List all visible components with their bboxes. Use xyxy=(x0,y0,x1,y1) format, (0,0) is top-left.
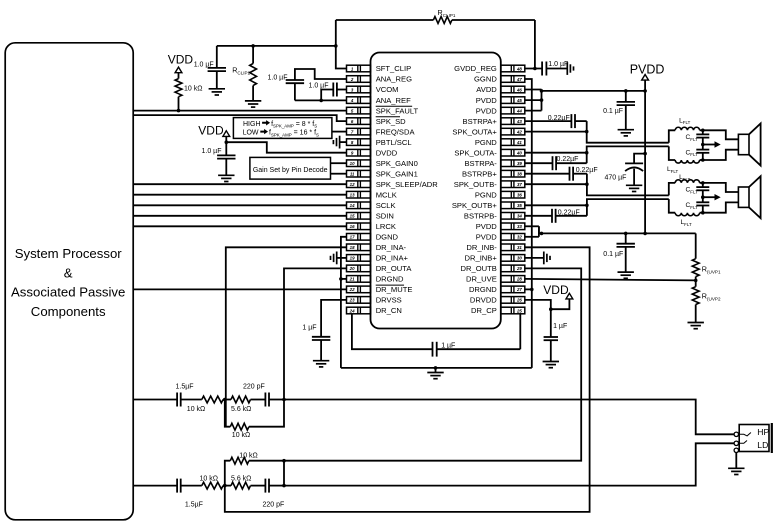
svg-text:10 kΩ: 10 kΩ xyxy=(232,432,250,439)
svg-text:11: 11 xyxy=(350,172,355,177)
wire DR_INB- to feedback node A2 xyxy=(225,247,590,512)
pin PGND (right 13) xyxy=(475,190,525,199)
inductor L_FLT (channel A top) xyxy=(669,130,675,142)
pin BSTRPB+ (right 11) xyxy=(462,169,525,178)
node A junction (channel A) xyxy=(223,398,227,402)
svg-text:SPK_OUTB+: SPK_OUTB+ xyxy=(452,201,498,210)
pin DVDD (left 9) xyxy=(347,148,398,157)
svg-text:DR_INA+: DR_INA+ xyxy=(376,254,409,263)
node PVDD pin4 junction xyxy=(540,98,544,102)
svg-text:LOW: LOW xyxy=(243,130,259,137)
pin GGND (right 2) xyxy=(474,75,525,84)
svg-text:10: 10 xyxy=(350,161,355,166)
node DVDD supply junction xyxy=(225,140,229,144)
resistor 10k feedback (channel A) xyxy=(225,400,231,427)
ground (upper 0.1uF) xyxy=(618,129,634,131)
capacitor 220pF (channel B) xyxy=(264,479,266,493)
svg-text:DR_INB+: DR_INB+ xyxy=(465,254,498,263)
node GVDD_REG junction xyxy=(533,67,537,71)
pin PVDD (right 5) xyxy=(476,106,525,115)
svg-text:DR_MUTE: DR_MUTE xyxy=(376,285,413,294)
pin BSTRPA+ (right 6) xyxy=(463,117,525,126)
svg-text:SPK_FAULT: SPK_FAULT xyxy=(376,106,419,115)
wire PVDD vertical rail xyxy=(644,91,646,234)
svg-text:SFT_CLIP: SFT_CLIP xyxy=(376,64,411,73)
svg-text:1.5µF: 1.5µF xyxy=(176,384,194,391)
wire DRVDD to VDD xyxy=(525,300,551,337)
svg-text:DR_OUTA: DR_OUTA xyxy=(376,264,413,273)
svg-text:19: 19 xyxy=(350,256,355,261)
inductor L_FLT (channel B top) xyxy=(669,183,675,196)
inductor L_FLT (channel B bottom) xyxy=(669,199,675,213)
svg-text:36: 36 xyxy=(517,193,522,198)
wire SFT_CLIP to R_CLIP divider xyxy=(336,20,347,69)
capacitor C_FLT (channel B lower) xyxy=(701,195,705,199)
jack labels xyxy=(757,427,769,450)
jack switch contacts xyxy=(739,433,751,436)
wire SPK_SLEEP/ADR from processor xyxy=(133,183,346,185)
wire input line from processor (channel A) xyxy=(133,399,177,401)
resistor 10k pull-up on SPK_FAULT xyxy=(175,79,182,97)
wire node B1 to headphone jack xyxy=(284,400,734,435)
ground (SFT_CLIP cap) xyxy=(209,88,225,90)
speaker arrow (channel A) xyxy=(703,144,715,146)
svg-text:41: 41 xyxy=(516,140,522,145)
pin DR_OUTB (right 20) xyxy=(461,264,525,273)
svg-text:GVDD_REG: GVDD_REG xyxy=(454,64,497,73)
svg-text:0.22µF: 0.22µF xyxy=(558,209,580,216)
resistor R_CLIP2 xyxy=(251,44,255,48)
wire DR_OUTA down to node B1 xyxy=(284,268,347,399)
node B junction (channel B) xyxy=(282,484,286,488)
wire input line from processor (channel B) xyxy=(133,485,177,487)
ground (DVDD cap) xyxy=(218,174,234,176)
wire DR_INA- to feedback node A1 xyxy=(226,247,347,426)
pin LRCK (left 16) xyxy=(347,222,396,231)
svg-text:220 pF: 220 pF xyxy=(263,502,285,509)
filter B labels xyxy=(679,174,698,227)
svg-text:PVDD: PVDD xyxy=(476,106,498,115)
svg-text:35: 35 xyxy=(517,203,522,208)
wire node B2 to headphone jack xyxy=(284,443,734,485)
wire DVDD to VDD xyxy=(226,142,346,153)
pin DRGND (right 22) xyxy=(469,285,525,294)
pin SPK_GAIN1 (left 11) xyxy=(347,169,418,178)
pin ANA_REG (left 2) xyxy=(347,75,413,84)
pin DRVDD (right 23) xyxy=(470,296,525,305)
svg-text:SCLK: SCLK xyxy=(376,201,396,210)
pin AVDD (right 3) xyxy=(476,85,525,94)
wire ANA_REF rail xyxy=(295,99,347,101)
resistor R_CLIP1 xyxy=(336,19,434,21)
svg-text:HP: HP xyxy=(757,427,769,437)
IC U1 body (audio amplifier) xyxy=(371,53,501,329)
svg-text:22: 22 xyxy=(349,287,355,292)
speaker (channel A) xyxy=(703,130,739,139)
svg-text:DGND: DGND xyxy=(376,233,399,242)
system processor block xyxy=(5,43,133,520)
svg-text:47: 47 xyxy=(516,77,522,82)
jack terminal LD xyxy=(734,441,738,445)
pin DR_INA- (left 18) xyxy=(347,243,407,252)
wire PVDD lower rail xyxy=(539,232,696,234)
svg-text:SPK_GAIN1: SPK_GAIN1 xyxy=(376,169,418,178)
ground (DR_INB+ tie-off) xyxy=(525,257,544,259)
svg-text:470 µF: 470 µF xyxy=(605,175,627,182)
svg-text:VDD: VDD xyxy=(168,53,194,67)
wire GVDD_REG node xyxy=(525,68,542,70)
capacitor 0.22uF (BSTRPA+) xyxy=(525,120,572,122)
svg-text:15: 15 xyxy=(350,214,355,219)
svg-text:21: 21 xyxy=(349,277,355,282)
wire MCLK from processor xyxy=(133,194,346,196)
node DRGND left junction xyxy=(339,277,343,281)
svg-text:220 pF: 220 pF xyxy=(243,384,265,391)
svg-text:SPK_OUTA-: SPK_OUTA- xyxy=(454,148,497,157)
wire SPK_SD from processor xyxy=(133,115,346,121)
svg-text:SPK_SD: SPK_SD xyxy=(376,117,406,126)
svg-text:10 kΩ: 10 kΩ xyxy=(239,452,257,459)
ground (R_UVP divider) xyxy=(688,322,704,324)
svg-text:1 µF: 1 µF xyxy=(302,324,316,331)
pin DR_MUTE (left 22) xyxy=(347,285,413,294)
wire SCLK from processor xyxy=(133,204,346,206)
svg-text:46: 46 xyxy=(516,87,522,92)
svg-text:PGND: PGND xyxy=(475,138,497,147)
svg-text:38: 38 xyxy=(517,172,522,177)
svg-text:Components: Components xyxy=(31,304,106,319)
svg-text:0.22µF: 0.22µF xyxy=(557,156,579,163)
capacitor 1.5uF (channel B) xyxy=(176,479,178,493)
wire SPK_GAIN1 to gain box xyxy=(331,173,347,175)
svg-text:16: 16 xyxy=(350,224,355,229)
node SPK_FAULT pull-up junction xyxy=(177,109,181,113)
wire GGND down to ground rail xyxy=(525,79,532,368)
pin DR_UVE (right 21) xyxy=(466,275,525,284)
svg-text:BSTRPB+: BSTRPB+ xyxy=(462,169,497,178)
wire DGND to ground rail xyxy=(341,237,347,368)
svg-text:DR_INA-: DR_INA- xyxy=(376,243,407,252)
svg-text:0.1 µF: 0.1 µF xyxy=(603,108,623,115)
wire AVDD/PVDD bracket xyxy=(525,89,542,91)
svg-text:42: 42 xyxy=(516,129,522,134)
capacitor 0.22uF (BSTRPA-) xyxy=(525,162,553,164)
svg-text:1.5µF: 1.5µF xyxy=(185,502,203,509)
svg-text:DR_CN: DR_CN xyxy=(376,306,402,315)
svg-text:VDD: VDD xyxy=(543,283,569,297)
wire SPK_OUTB- to filter xyxy=(525,183,587,185)
capacitor 1.0uF (VCOM) xyxy=(337,89,347,91)
capacitor 1.0uF (SFT_CLIP filter) xyxy=(216,46,218,68)
svg-text:32: 32 xyxy=(517,235,522,240)
node DR_UVE divider junction xyxy=(694,279,698,283)
filter A labels xyxy=(667,117,698,174)
svg-text:31: 31 xyxy=(517,245,522,250)
wire DRGND stub xyxy=(341,278,347,280)
node ground rail center xyxy=(434,366,438,370)
pin PBTL/SCL (left 8) xyxy=(347,138,412,147)
node B junction (channel A) xyxy=(282,398,286,402)
pin SCLK (left 14) xyxy=(347,201,396,210)
wire SPK_OUTA+ to filter xyxy=(525,131,587,133)
pin DR_INA+ (left 19) xyxy=(347,254,409,263)
svg-text:1.0 µF: 1.0 µF xyxy=(202,148,222,155)
svg-text:DRGND: DRGND xyxy=(376,275,404,284)
svg-text:37: 37 xyxy=(517,182,522,187)
pin PVDD (right 4) xyxy=(476,96,525,105)
svg-text:FREQ/SDA: FREQ/SDA xyxy=(376,127,416,136)
svg-text:PVDD: PVDD xyxy=(476,222,498,231)
wire PVDD upper rail xyxy=(542,90,646,92)
svg-text:10 kΩ: 10 kΩ xyxy=(187,406,205,413)
svg-text:17: 17 xyxy=(350,235,355,240)
svg-text:DRVDD: DRVDD xyxy=(470,296,497,305)
annotation box gain set by pin decode xyxy=(250,157,331,179)
svg-text:DR_CP: DR_CP xyxy=(471,306,497,315)
svg-text:SPK_GAIN0: SPK_GAIN0 xyxy=(376,159,418,168)
capacitor C_FLT (channel B upper) xyxy=(701,181,705,185)
svg-text:AVDD: AVDD xyxy=(476,85,497,94)
svg-text:DRVSS: DRVSS xyxy=(376,296,402,305)
node PVDD lower rail junction xyxy=(540,232,544,236)
svg-text:12: 12 xyxy=(350,182,355,187)
svg-text:30: 30 xyxy=(517,256,522,261)
pin BSTRPA- (right 10) xyxy=(464,159,524,168)
svg-text:27: 27 xyxy=(516,287,522,292)
svg-text:DR_INB-: DR_INB- xyxy=(466,243,497,252)
pin SPK_OUTA- (right 9) xyxy=(454,148,524,157)
pin DR_INB+ (right 19) xyxy=(465,254,525,263)
pin GVDD_REG (right 1) xyxy=(454,64,525,73)
pin SPK_FAULT (left 5) xyxy=(347,106,419,115)
svg-text:DRGND: DRGND xyxy=(469,285,497,294)
node SFT_CLIP divider junction xyxy=(334,44,338,48)
svg-text:4: 4 xyxy=(350,98,354,103)
svg-text:LRCK: LRCK xyxy=(376,222,396,231)
jack terminal sleeve xyxy=(734,448,738,452)
pin DR_CP (right 24) xyxy=(471,306,525,315)
capacitor 470uF (bulk) xyxy=(643,152,647,156)
processor label text xyxy=(11,246,125,319)
pin MCLK (left 13) xyxy=(347,190,397,199)
svg-text:MCLK: MCLK xyxy=(376,190,397,199)
capacitor 1.0uF (DVDD) xyxy=(225,142,227,155)
resistor 5.6k (channel A) xyxy=(231,396,251,403)
svg-text:GGND: GGND xyxy=(474,75,497,84)
capacitor C_FLT (channel A upper) xyxy=(701,129,705,133)
wire FREQ/SDA to annotation box xyxy=(332,131,347,133)
wire DR_MUTE from processor xyxy=(133,288,346,290)
resistor 10k feedback (channel B) xyxy=(225,461,231,486)
svg-text:14: 14 xyxy=(350,203,355,208)
svg-text:23: 23 xyxy=(349,298,355,303)
svg-text:33: 33 xyxy=(517,224,522,229)
svg-text:1.0 µF: 1.0 µF xyxy=(194,62,214,69)
capacitor 0.1uF (lower PVDD) xyxy=(624,232,628,236)
pin SPK_SD (left 6) xyxy=(347,117,407,126)
node DRGND right junction xyxy=(530,288,534,292)
svg-text:0.22µF: 0.22µF xyxy=(548,115,570,122)
svg-text:5.6 kΩ: 5.6 kΩ xyxy=(231,476,251,483)
svg-text:0.1 µF: 0.1 µF xyxy=(603,251,623,258)
pin SPK_SLEEP/ADR (left 12) xyxy=(347,180,439,189)
svg-text:26: 26 xyxy=(516,298,522,303)
pin DR_OUTA (left 20) xyxy=(347,264,413,273)
node A junction (channel B) xyxy=(223,484,227,488)
pin VCOM (left 3) xyxy=(347,85,399,94)
wire DR_CP to flying cap xyxy=(519,314,521,349)
svg-text:Gain Set by Pin Decode: Gain Set by Pin Decode xyxy=(253,167,328,174)
pin DRVSS (left 23) xyxy=(347,296,402,305)
svg-text:SPK_OUTB-: SPK_OUTB- xyxy=(454,180,498,189)
svg-text:0.22µF: 0.22µF xyxy=(576,167,598,174)
svg-text:VDD: VDD xyxy=(198,123,224,137)
node AVDD rail junction xyxy=(540,89,544,93)
svg-text:29: 29 xyxy=(516,266,522,271)
wire SDIN from processor xyxy=(133,215,346,217)
capacitor 220pF (channel A) xyxy=(264,393,266,407)
wire R_CLIP rail xyxy=(217,45,336,47)
pin DGND (left 17) xyxy=(347,233,399,242)
pin SFT_CLIP (left 1) xyxy=(347,64,412,73)
svg-text:2: 2 xyxy=(350,77,354,82)
capacitor 1.0uF (GVDD_REG) xyxy=(541,62,543,76)
pin SPK_OUTB- (right 12) xyxy=(454,180,525,189)
svg-text:10 kΩ: 10 kΩ xyxy=(200,476,218,483)
wire SPK_GAIN0 to gain box xyxy=(331,162,347,164)
svg-text:45: 45 xyxy=(516,98,522,103)
svg-text:1 µF: 1 µF xyxy=(441,343,455,350)
ground (lower 0.1uF) xyxy=(618,271,634,273)
capacitor 1uF (DRVDD) xyxy=(544,336,558,338)
ground (R_CLIP2) xyxy=(245,100,261,102)
pin SPK_GAIN0 (left 10) xyxy=(347,159,418,168)
svg-text:BSTRPA-: BSTRPA- xyxy=(464,159,497,168)
annotation box HIGH/LOW frequency select xyxy=(233,118,332,139)
wire DRGND right stub xyxy=(525,288,532,290)
pin PVDD (right 17) xyxy=(476,233,525,242)
node VCOM/ANA_REF junction xyxy=(319,99,323,103)
svg-text:System Processor: System Processor xyxy=(15,246,123,261)
svg-text:1.0 µF: 1.0 µF xyxy=(268,75,288,82)
svg-text:PVDD: PVDD xyxy=(630,62,665,76)
capacitor 0.1uF (upper PVDD) xyxy=(624,89,628,93)
resistor 10k series (channel B) xyxy=(202,482,223,489)
ground (PBTL/SCL tie-off) xyxy=(340,141,347,143)
svg-text:BSTRPB-: BSTRPB- xyxy=(464,212,497,221)
svg-text:20: 20 xyxy=(349,266,355,271)
svg-text:PGND: PGND xyxy=(475,190,497,199)
svg-text:28: 28 xyxy=(516,277,522,282)
capacitor 1.5uF (channel A) xyxy=(176,393,178,407)
svg-text:34: 34 xyxy=(517,214,522,219)
pin PVDD (right 16) xyxy=(476,222,525,231)
capacitor 1uF (DRVSS) xyxy=(321,300,346,337)
svg-text:Associated Passive: Associated Passive xyxy=(11,285,125,300)
resistor R_UVP2 xyxy=(695,280,697,286)
pin DR_INB- (right 18) xyxy=(466,243,524,252)
pin ANA_REF (left 4) xyxy=(347,96,412,105)
node PVDD rail top junction xyxy=(643,89,647,93)
svg-text:25: 25 xyxy=(516,308,522,313)
capacitor 0.22uF (BSTRPB+) xyxy=(525,173,570,175)
wire SPK_OUTB+ to filter xyxy=(525,204,587,206)
svg-text:DVDD: DVDD xyxy=(376,148,398,157)
svg-text:44: 44 xyxy=(516,108,522,113)
ground (jack sleeve) xyxy=(735,453,737,469)
pin DRGND (left 21) xyxy=(347,275,405,284)
svg-text:VCOM: VCOM xyxy=(376,85,399,94)
svg-text:PVDD: PVDD xyxy=(476,96,498,105)
svg-text:1.0 µF: 1.0 µF xyxy=(309,83,329,90)
wire SPK_OUTA- to filter xyxy=(525,152,587,154)
svg-text:SDIN: SDIN xyxy=(376,212,394,221)
capacitor 1uF (charge pump flying) xyxy=(432,342,434,357)
pin DR_CN (left 24) xyxy=(347,306,402,315)
svg-text:48: 48 xyxy=(516,66,522,71)
wire PVDD lower bracket xyxy=(525,225,539,227)
svg-text:5.6 kΩ: 5.6 kΩ xyxy=(231,406,251,413)
speaker arrow (channel B) xyxy=(703,196,715,198)
resistor 10k series (channel A) xyxy=(202,396,223,403)
svg-text:ANA_REF: ANA_REF xyxy=(376,96,411,105)
svg-text:43: 43 xyxy=(516,119,522,124)
wire SPK_FAULT from processor xyxy=(133,110,346,112)
node PVDD rail bottom junction xyxy=(643,232,647,236)
resistor 5.6k (channel B) xyxy=(231,482,251,489)
svg-text:1 µF: 1 µF xyxy=(553,323,567,330)
pin BSTRPB- (right 15) xyxy=(464,212,525,221)
svg-text:13: 13 xyxy=(350,193,355,198)
svg-text:1.0 µF: 1.0 µF xyxy=(548,61,568,68)
ground (DRVDD cap) xyxy=(543,361,559,363)
svg-text:10 kΩ: 10 kΩ xyxy=(184,86,202,93)
pin SPK_OUTA+ (right 7) xyxy=(452,127,524,136)
svg-text:PBTL/SCL: PBTL/SCL xyxy=(376,138,412,147)
svg-text:39: 39 xyxy=(517,161,522,166)
wire DR_CN to flying cap xyxy=(352,314,432,349)
svg-text:HIGH: HIGH xyxy=(243,121,261,128)
headphone jack body xyxy=(739,425,769,452)
wire DR_OUTB down to node B2 xyxy=(284,268,581,460)
wire LRCK from processor xyxy=(133,225,346,227)
ground (center rail) xyxy=(435,368,437,373)
svg-text:PVDD: PVDD xyxy=(476,233,498,242)
ground (DRVSS cap) xyxy=(313,360,329,362)
svg-text:SPK_OUTA+: SPK_OUTA+ xyxy=(452,127,497,136)
svg-text:18: 18 xyxy=(350,245,355,250)
pin PGND (right 8) xyxy=(475,138,525,147)
resistor R_UVP1 xyxy=(695,233,697,258)
svg-text:ANA_REG: ANA_REG xyxy=(376,75,412,84)
ground (DR_INA+ tie-off) xyxy=(337,257,347,259)
ground (GVDD_REG cap) xyxy=(566,62,568,75)
wire DR_UVE to divider xyxy=(525,279,696,281)
capacitor 0.22uF (BSTRPB-) xyxy=(525,215,552,217)
jack terminal HP xyxy=(734,432,738,436)
pin SDIN (left 15) xyxy=(347,212,394,221)
node DRVDD cap junction xyxy=(549,307,553,311)
svg-text:&: & xyxy=(64,265,73,280)
capacitor C_FLT (channel A lower) xyxy=(701,143,705,147)
capacitor 1.0uF (ANA_REG) xyxy=(295,69,347,80)
svg-text:SPK_SLEEP/ADR: SPK_SLEEP/ADR xyxy=(376,180,439,189)
pin SPK_OUTB+ (right 14) xyxy=(452,201,525,210)
svg-text:DR_UVE: DR_UVE xyxy=(466,275,497,284)
svg-text:DR_OUTB: DR_OUTB xyxy=(461,264,497,273)
ground (470uF) xyxy=(626,184,642,186)
pin FREQ/SDA (left 7) xyxy=(347,127,416,136)
